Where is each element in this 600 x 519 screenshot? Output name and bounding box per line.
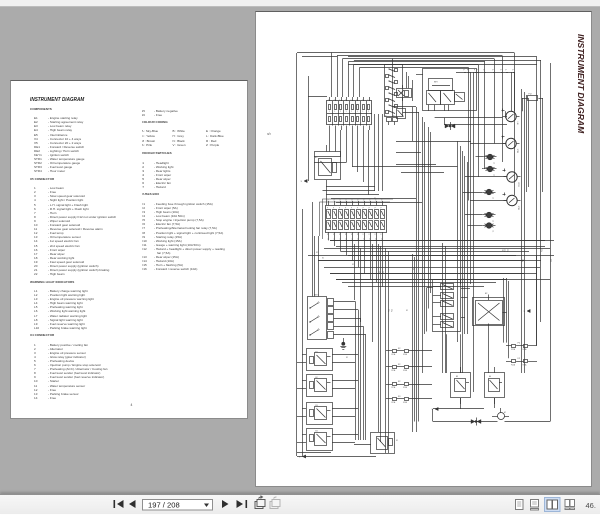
svg-text:F: F: [339, 208, 340, 210]
svg-text:1: 1: [351, 111, 352, 113]
svg-text:F: F: [357, 208, 358, 210]
svg-text:E1: E1: [316, 352, 318, 354]
svg-text:3: 3: [299, 457, 301, 459]
svg-text:M: M: [504, 412, 506, 414]
svg-text:P: P: [474, 70, 475, 72]
svg-text:5: 5: [267, 132, 272, 135]
svg-text:P: P: [506, 70, 507, 72]
svg-text:INSTRUMENT DIAGRAM: INSTRUMENT DIAGRAM: [576, 34, 586, 134]
svg-text:NZ: NZ: [322, 258, 324, 260]
svg-text:KEY: KEY: [434, 82, 439, 84]
svg-text:F2.5: F2.5: [508, 249, 510, 252]
svg-text:NZ: NZ: [406, 310, 408, 312]
svg-text:E2: E2: [316, 377, 318, 379]
svg-text:F2: F2: [398, 381, 401, 383]
svg-text:46.: 46.: [586, 501, 596, 510]
svg-text:F: F: [357, 234, 358, 236]
svg-text:L10: L10: [516, 122, 518, 125]
svg-text:P: P: [484, 70, 485, 72]
svg-text:F: F: [381, 208, 382, 210]
svg-text:F2.5A: F2.5A: [511, 363, 515, 366]
svg-text:1: 1: [334, 111, 335, 113]
svg-text:F3: F3: [398, 396, 401, 398]
svg-text:F2.5A: F2.5A: [403, 369, 407, 372]
svg-text:1: 1: [346, 111, 347, 113]
svg-text:STR3: STR3: [517, 182, 519, 186]
svg-text:E2: E2: [485, 293, 487, 295]
svg-text:F: F: [327, 208, 328, 210]
svg-text:F: F: [333, 234, 334, 236]
svg-text:F2: F2: [398, 348, 401, 350]
svg-text:15: 15: [393, 116, 395, 118]
svg-text:F: F: [381, 234, 382, 236]
svg-text:P: P: [467, 70, 468, 72]
svg-text:1: 1: [357, 111, 358, 113]
svg-text:F: F: [351, 234, 352, 236]
svg-text:F2.5A: F2.5A: [392, 386, 396, 389]
svg-text:F: F: [351, 208, 352, 210]
svg-text:NZ: NZ: [316, 252, 318, 254]
svg-text:P: P: [513, 70, 514, 72]
svg-text:F: F: [369, 208, 370, 210]
svg-text:F: F: [339, 234, 340, 236]
svg-text:F2.5: F2.5: [389, 309, 391, 312]
svg-text:F: F: [345, 208, 346, 210]
svg-text:F: F: [363, 208, 364, 210]
svg-text:F2.5A: F2.5A: [403, 386, 407, 389]
svg-text:L1: L1: [492, 220, 494, 222]
svg-text:F2.5A: F2.5A: [392, 353, 396, 356]
svg-text:197 / 208: 197 / 208: [148, 501, 180, 510]
svg-text:F2.5: F2.5: [392, 309, 394, 312]
svg-text:1: 1: [363, 111, 364, 113]
svg-text:F2: F2: [518, 358, 521, 360]
svg-text:F2: F2: [398, 364, 401, 366]
svg-text:P: P: [501, 70, 502, 72]
svg-text:P: P: [493, 70, 494, 72]
svg-text:L1: L1: [492, 197, 494, 199]
svg-text:1: 1: [340, 111, 341, 113]
svg-text:L1: L1: [493, 174, 495, 176]
svg-text:1: 1: [368, 111, 369, 113]
svg-text:STR1: STR1: [516, 149, 518, 153]
svg-text:F: F: [375, 234, 376, 236]
svg-text:F2.5A: F2.5A: [403, 401, 407, 404]
svg-text:1: 1: [329, 111, 330, 113]
svg-text:E4: E4: [489, 376, 491, 378]
svg-text:NZ: NZ: [352, 264, 354, 266]
svg-text:E3: E3: [456, 376, 458, 378]
svg-text:F: F: [363, 234, 364, 236]
svg-text:E5: E5: [315, 157, 317, 159]
svg-text:F: F: [369, 234, 370, 236]
svg-text:F12: F12: [529, 94, 532, 96]
svg-text:L1: L1: [493, 162, 495, 164]
svg-text:F: F: [333, 208, 334, 210]
svg-text:STR2: STR2: [517, 206, 519, 210]
svg-text:F2.5A: F2.5A: [392, 401, 396, 404]
svg-text:P: P: [464, 70, 465, 72]
svg-text:F: F: [345, 234, 346, 236]
svg-text:F2.5: F2.5: [504, 249, 506, 252]
svg-text:F: F: [327, 234, 328, 236]
svg-text:F2: F2: [518, 343, 521, 345]
svg-text:3: 3: [301, 181, 303, 183]
svg-text:NZ: NZ: [502, 250, 504, 252]
svg-text:F: F: [375, 208, 376, 210]
svg-text:F2.5A: F2.5A: [392, 369, 396, 372]
svg-text:NZ: NZ: [396, 440, 398, 442]
svg-text:F2.5: F2.5: [551, 259, 553, 262]
svg-text:L1: L1: [492, 231, 494, 233]
svg-text:NZ: NZ: [346, 357, 348, 359]
svg-text:F2.5A: F2.5A: [403, 353, 407, 356]
svg-text:F2.5A: F2.5A: [511, 348, 515, 351]
svg-text:E3: E3: [316, 405, 318, 407]
svg-text:E4: E4: [316, 431, 318, 433]
svg-text:F2.5: F2.5: [542, 249, 544, 252]
svg-text:F2.5: F2.5: [414, 267, 416, 270]
svg-text:30: 30: [385, 116, 387, 118]
